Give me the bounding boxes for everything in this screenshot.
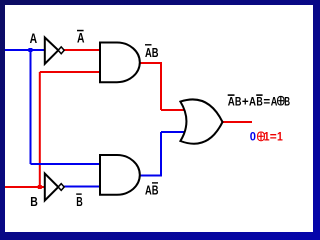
OR gate U5 [180,99,222,143]
node B junction [38,185,42,189]
wire AND1 to OR vertical [160,63,162,110]
wire B branch vertical [39,72,41,187]
AND gate U3 [100,43,140,83]
label ABbar [145,182,159,197]
label value 0xor1=1 [250,130,283,144]
wire Abar from inverter to AND1 [64,49,100,51]
svg-text:B: B [76,194,83,209]
label formula AbarB+ABbar=AxorB [228,94,291,108]
wire AND2 output [139,175,162,177]
wire OR output [221,121,252,123]
svg-text:A: A [271,95,278,109]
wire B to AND1 input [40,71,100,73]
wire B input [5,186,45,188]
wire to OR bottom input [161,131,185,133]
label AbarB [145,44,159,60]
wire AND2 to OR vertical [160,132,162,176]
svg-text:B: B [235,95,242,109]
label Bbar [76,193,83,209]
wire A branch vertical [30,50,32,164]
wire to OR top input [161,109,185,111]
svg-text:B: B [284,95,290,109]
svg-text:=: = [263,95,270,109]
svg-text:A: A [30,30,37,46]
label Abar [77,30,85,46]
label B [30,194,38,209]
svg-text:B: B [256,95,263,109]
svg-text:1: 1 [277,130,283,144]
inverter U1 [45,38,64,64]
wire A to AND2 input [31,163,101,165]
wire Bbar from inverter to AND2 [64,186,100,188]
svg-text:B: B [30,194,38,209]
wire AND1 output [139,62,162,64]
node A junction [28,48,32,52]
svg-text:+: + [242,95,249,109]
label A [30,30,37,46]
AND gate U4 [100,155,140,195]
svg-text:A: A [77,30,85,46]
svg-text:A: A [249,95,256,109]
svg-text:AB: AB [145,45,159,60]
svg-text:AB: AB [145,183,159,198]
svg-text:=: = [270,130,277,144]
svg-text:0: 0 [250,130,256,144]
svg-text:A: A [228,95,235,109]
wire A input [5,49,45,51]
inverter U2 [45,174,64,201]
